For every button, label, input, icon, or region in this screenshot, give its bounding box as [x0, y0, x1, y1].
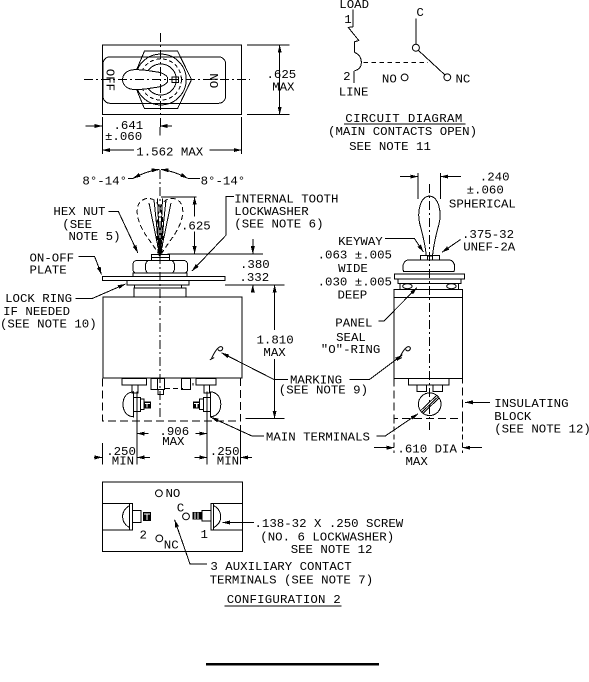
side toggle bat: [419, 196, 440, 255]
bushing neck front: [134, 288, 186, 297]
.138-32 screw text: [255, 517, 404, 557]
dim .610 DIA MAX text: [397, 442, 457, 469]
NC aux circle: [156, 535, 163, 542]
front right terminal tab: [196, 379, 216, 393]
dim .625 text: [181, 219, 211, 233]
svg-text:MAX: MAX: [406, 455, 429, 469]
svg-text:LOAD: LOAD: [339, 0, 369, 12]
CONFIGURATION 2 title: [227, 593, 341, 607]
dim .610 dashed extensions: [394, 419, 462, 453]
NO label bottom: [166, 487, 181, 501]
switch body side: [394, 290, 462, 379]
svg-text:8°-14°: 8°-14°: [82, 175, 127, 189]
.375-32 UNEF-2A label: [462, 228, 516, 254]
MARKING leader right: [350, 355, 403, 380]
right outer extension line: [240, 425, 242, 464]
terminal 1 label bottom: [201, 528, 208, 542]
svg-text:LINE: LINE: [339, 85, 369, 99]
8-14 deg label right: [201, 175, 246, 189]
svg-text:MIN: MIN: [217, 455, 239, 469]
C aux circle: [183, 513, 190, 520]
NC contact circle: [444, 74, 451, 81]
svg-text:LOCK RING: LOCK RING: [5, 292, 72, 306]
svg-text:3 AUXILIARY CONTACT: 3 AUXILIARY CONTACT: [210, 560, 351, 574]
C label bottom: [177, 502, 184, 516]
toggle lever paddle (pointing to OFF): [123, 70, 168, 90]
svg-text:.138-32 X .250 SCREW: .138-32 X .250 SCREW: [255, 517, 404, 531]
svg-text:±.060: ±.060: [105, 130, 142, 144]
3 AUXILIARY CONTACT text: [210, 560, 374, 587]
svg-text:CONFIGURATION 2: CONFIGURATION 2: [227, 593, 341, 607]
MAIN TERMINALS label: [266, 431, 370, 445]
marking squiggle front: [210, 347, 223, 360]
svg-text:.063 ±.005: .063 ±.005: [318, 249, 392, 263]
MAIN TERMINALS leader right: [377, 414, 418, 436]
INSULATING BLOCK label: [494, 397, 589, 436]
svg-text:C: C: [177, 502, 184, 516]
dim 1.810 MAX text: [257, 334, 294, 360]
LOCK RING label: [0, 292, 97, 331]
svg-text:1: 1: [201, 528, 208, 542]
svg-text:UNEF-2A: UNEF-2A: [463, 241, 516, 255]
svg-text:KEYWAY: KEYWAY: [338, 235, 383, 249]
bottom right terminal block: [211, 503, 242, 530]
svg-text:PANEL: PANEL: [335, 317, 372, 331]
MARKING label: [279, 373, 368, 397]
right main screw terminal: [193, 392, 221, 417]
dim 1.562 MAX text: [136, 145, 203, 159]
bushing inner circle: [145, 64, 176, 95]
dim .240 arrows: [400, 176, 461, 178]
svg-text:NC: NC: [456, 72, 471, 86]
dim .906 MAX text: [159, 425, 189, 449]
toggle bat left position (dashed teardrop): [134, 196, 172, 260]
svg-text:(SEE NOTE 10): (SEE NOTE 10): [0, 317, 97, 331]
dim .641 arrows: [86, 125, 173, 127]
svg-text:SEE NOTE 12: SEE NOTE 12: [291, 543, 373, 557]
svg-text:NC: NC: [164, 539, 179, 553]
INTERNAL TOOTH leader: [192, 197, 234, 272]
dim 1.562 MAX extension line (right): [241, 117, 243, 154]
bottom left terminal block: [102, 503, 132, 530]
svg-text:(SEE NOTE 9): (SEE NOTE 9): [279, 383, 368, 397]
NO label: [382, 72, 397, 86]
side plate slice: [394, 274, 464, 279]
svg-text:NOTE 5): NOTE 5): [69, 230, 121, 244]
CIRCUIT DIAGRAM title: [345, 112, 462, 126]
svg-text:8°-14°: 8°-14°: [201, 175, 246, 189]
MARKING leader left: [222, 353, 289, 380]
lock ring front: [135, 285, 182, 288]
front dashed terminal envelope: [102, 379, 240, 422]
svg-text:DEEP: DEEP: [338, 289, 368, 303]
toggle bat right position (dashed teardrop): [148, 196, 186, 260]
dim .641 extension line (left edge): [101, 117, 103, 154]
8-14 deg leader right: [188, 177, 200, 179]
aux terminals leader: [175, 520, 207, 564]
on-off plate rounded rect: [103, 57, 226, 104]
title underline: [344, 123, 466, 125]
terminal 1 label: [344, 13, 351, 27]
front center-right bracket: [182, 379, 193, 390]
side hex nut: [403, 260, 455, 272]
small dashed line between brackets: [165, 388, 183, 390]
HEX NUT label: [53, 205, 120, 244]
side dashed envelope: [394, 378, 462, 418]
svg-text:.332: .332: [239, 271, 269, 285]
svg-text:MAX: MAX: [263, 346, 286, 360]
circuit breaker zigzag and contact arc: [348, 27, 361, 83]
INSULATING BLOCK leader: [465, 401, 490, 403]
dim .250 MIN left arrows: [94, 456, 150, 458]
dim 1.810 MAX bottom extension: [245, 417, 284, 419]
ON-OFF PLATE leader: [79, 257, 102, 275]
terminal center extension lines: [137, 392, 207, 465]
dim .906 MAX dimension line: [137, 433, 207, 435]
NC label: [456, 72, 471, 86]
marking squiggle side: [398, 347, 411, 360]
side lockwasher slice: [398, 279, 461, 284]
bushing cap rect: [152, 255, 170, 261]
NO contact circle: [401, 74, 408, 81]
washer under nut: [133, 273, 187, 276]
screw leader to .138 text: [223, 522, 255, 524]
dim .625 top extension line: [161, 196, 197, 198]
svg-text:±.060: ±.060: [467, 184, 504, 198]
svg-text:.030 ±.005: .030 ±.005: [318, 275, 392, 289]
svg-text:SPHERICAL: SPHERICAL: [449, 198, 516, 212]
thread dashed circle: [140, 59, 181, 100]
NO aux circle: [156, 490, 163, 497]
svg-text:2: 2: [343, 70, 350, 84]
svg-text:(SEE NOTE 6): (SEE NOTE 6): [234, 218, 323, 232]
vertical centerline: [159, 33, 162, 136]
hex nut outline (plan): [133, 51, 192, 109]
internal tooth lockwasher front: [127, 281, 189, 285]
INTERNAL TOOTH LOCKWASHER label: [234, 193, 338, 232]
dim .625 bottom extension line (shared with .380): [168, 253, 264, 255]
svg-text:1: 1: [344, 13, 351, 27]
svg-text:TERMINALS (SEE NOTE 7): TERMINALS (SEE NOTE 7): [210, 574, 374, 588]
KEYWAY leader: [385, 239, 423, 252]
front center-left bracket: [151, 379, 165, 395]
CONFIGURATION 2 underline: [225, 605, 342, 607]
dim .641 text: [105, 119, 143, 144]
svg-text:"O"-RING: "O"-RING: [321, 343, 381, 357]
bottom view outer rect: [102, 482, 242, 551]
left outer extension line: [101, 443, 103, 464]
HEX NUT leader: [109, 212, 138, 253]
dim .240 spherical text: [449, 170, 516, 211]
hex nut front: [133, 261, 188, 274]
bottom right screw shank: [193, 510, 211, 521]
wire from load: [352, 10, 354, 27]
bottom border segment: [206, 663, 379, 666]
keyway small square: [172, 77, 178, 82]
LOAD label: [339, 0, 369, 12]
svg-text:MAIN TERMINALS: MAIN TERMINALS: [266, 431, 370, 445]
dim .250 MIN right text: [210, 445, 240, 469]
NC label bottom: [164, 539, 179, 553]
svg-text:.240: .240: [480, 170, 510, 184]
ON label (rotated): [208, 73, 222, 88]
svg-text:MAX: MAX: [272, 80, 295, 94]
LOCK RING leader: [76, 284, 126, 298]
o-ring left bump: [403, 284, 412, 289]
svg-text:NO: NO: [382, 72, 397, 86]
.375-32 leader: [442, 240, 461, 253]
MAIN CONTACTS OPEN note: [328, 125, 477, 139]
svg-text:C: C: [416, 6, 423, 20]
dim 1.810 MAX dimension line: [274, 285, 276, 419]
MAIN TERMINALS leader left: [211, 417, 264, 436]
dim .250 MIN left text: [106, 445, 136, 469]
OFF label (rotated): [103, 69, 117, 91]
dim .625 MAX dimension line with arrows: [279, 45, 281, 115]
svg-text:SEE NOTE 11: SEE NOTE 11: [349, 140, 431, 154]
dim .625 MAX extension lines: [247, 45, 289, 115]
top view outer bracket rect: [102, 45, 241, 115]
svg-text:MAX: MAX: [162, 435, 185, 449]
dim .625 dimension line segments: [194, 197, 196, 254]
svg-text:MIN: MIN: [112, 455, 134, 469]
toggle throw arc left: [133, 170, 159, 179]
toggle swing fan lines: [149, 199, 171, 257]
svg-text:WIDE: WIDE: [338, 262, 368, 276]
left main screw terminal: [123, 392, 151, 417]
dim .240 extension lines: [418, 173, 441, 199]
C label: [416, 6, 423, 20]
dim .380/.332 text: [239, 258, 269, 285]
o-ring right bump: [447, 284, 456, 289]
svg-text:ON: ON: [208, 73, 222, 88]
side terminal tabs: [409, 378, 449, 391]
svg-text:(MAIN CONTACTS OPEN): (MAIN CONTACTS OPEN): [328, 125, 477, 139]
bottom left screw shank: [133, 510, 151, 522]
wire from C: [415, 19, 417, 44]
svg-text:2: 2: [140, 529, 147, 543]
front left terminal tab: [122, 379, 146, 393]
side screw head circle: [418, 393, 441, 416]
svg-text:1.562 MAX: 1.562 MAX: [136, 145, 203, 159]
side bushing neck: [400, 284, 458, 290]
8-14 deg leader left: [128, 177, 133, 179]
side vertical centerline: [428, 184, 430, 430]
8-14 deg label left: [82, 175, 127, 189]
PANEL SEAL O-RING label: [321, 317, 381, 357]
ON-OFF PLATE label: [30, 251, 75, 277]
bushing top with keyway: [420, 255, 439, 259]
dim .380/.332 dimension arrows: [252, 239, 254, 293]
dim .250 MIN right arrows: [195, 456, 253, 458]
dim .380/.332 bottom extension line: [225, 284, 285, 286]
dim 1.562 MAX dimension line: [102, 149, 241, 151]
SEE NOTE 11: [349, 140, 431, 154]
mounting plate front: [103, 277, 225, 281]
LINE label: [339, 85, 369, 99]
front vertical centerline: [159, 170, 161, 420]
svg-text:(SEE NOTE 12): (SEE NOTE 12): [494, 423, 589, 437]
toggle throw arc right: [161, 170, 188, 179]
bushing outer circle: [135, 54, 186, 105]
pivot contact circle: [412, 44, 419, 51]
terminal 2 label bottom: [140, 529, 147, 543]
KEYWAY label: [318, 235, 392, 302]
PANEL SEAL leader: [379, 288, 418, 322]
movable contact arm: [418, 50, 444, 74]
dim .625 MAX text: [267, 68, 297, 95]
horizontal centerline: [84, 79, 250, 81]
svg-text:NO: NO: [166, 487, 181, 501]
dim .610 arrows: [374, 447, 482, 449]
switch body front: [103, 297, 242, 378]
dashed actuation line: [364, 62, 429, 64]
terminal 2 label: [343, 70, 350, 84]
svg-text:.625: .625: [181, 219, 211, 233]
svg-text:PLATE: PLATE: [30, 264, 67, 278]
